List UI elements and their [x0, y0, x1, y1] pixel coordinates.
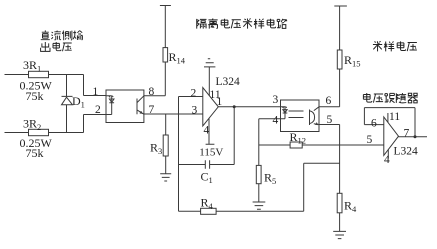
svg-text:3R2: 3R2	[23, 117, 41, 133]
svg-text:R3: R3	[150, 141, 162, 157]
svg-text:2: 2	[191, 88, 197, 100]
svg-text:11: 11	[389, 111, 400, 123]
svg-text:R5: R5	[264, 171, 276, 187]
svg-text:C1: C1	[201, 170, 213, 186]
svg-text:3: 3	[192, 105, 198, 117]
svg-text:75k: 75k	[26, 89, 44, 103]
svg-text:1: 1	[217, 96, 223, 108]
svg-text:6: 6	[371, 118, 377, 130]
svg-text:L324: L324	[216, 76, 241, 88]
svg-text:4: 4	[273, 115, 279, 127]
svg-text:R12: R12	[290, 130, 307, 146]
svg-text:7: 7	[404, 128, 410, 140]
svg-text:3R1: 3R1	[23, 58, 41, 74]
svg-text:8: 8	[149, 86, 155, 98]
svg-text:D1: D1	[72, 94, 85, 110]
svg-text:5: 5	[327, 114, 333, 126]
svg-text:6: 6	[326, 95, 332, 107]
svg-text:75k: 75k	[26, 146, 44, 160]
svg-text:7: 7	[149, 104, 155, 116]
svg-text:4: 4	[384, 154, 390, 166]
svg-text:R4: R4	[201, 196, 214, 212]
svg-text:2: 2	[95, 104, 101, 116]
svg-text:R15: R15	[344, 53, 361, 69]
svg-text:R4: R4	[344, 199, 357, 215]
svg-text:1: 1	[93, 86, 99, 98]
svg-text:3: 3	[273, 94, 279, 106]
svg-text:115V: 115V	[199, 147, 223, 159]
svg-text:4: 4	[204, 125, 210, 137]
svg-text:R14: R14	[169, 50, 186, 66]
svg-text:5: 5	[367, 134, 373, 146]
svg-text:L324: L324	[394, 146, 419, 158]
